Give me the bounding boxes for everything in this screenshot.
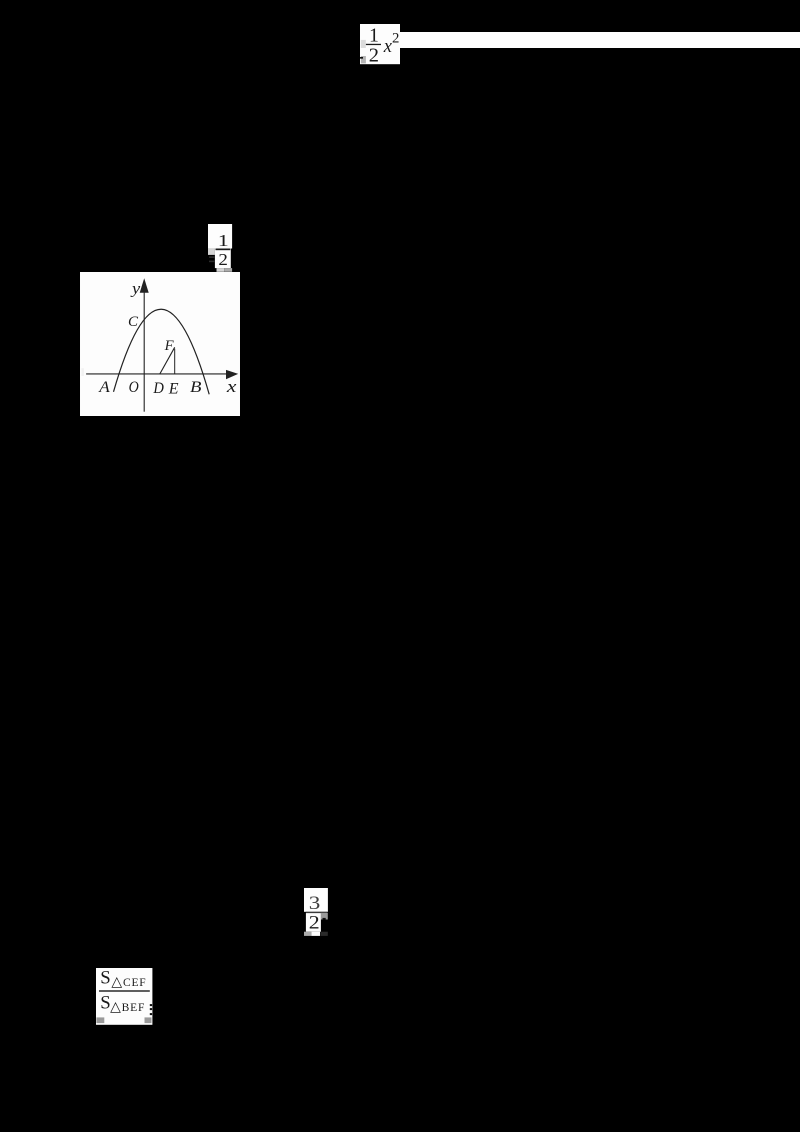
svg-text:2: 2 — [218, 250, 228, 269]
y axis line — [143, 286, 145, 412]
y axis arrowhead — [140, 278, 149, 292]
x axis arrowhead — [226, 370, 238, 379]
fraction bar — [215, 248, 230, 250]
gray artifact bottom right — [144, 1017, 151, 1023]
svg-text:O: O — [129, 379, 139, 396]
svg-text:1: 1 — [218, 231, 229, 250]
figure background — [80, 272, 240, 416]
medium gray artifact bottom — [224, 268, 232, 272]
svg-text:2: 2 — [309, 913, 320, 933]
white strip across top — [400, 32, 800, 48]
denominator background box — [306, 913, 321, 932]
text mark artifact right upper — [149, 1004, 151, 1006]
svg-text:2: 2 — [392, 30, 399, 46]
svg-text:C: C — [128, 314, 139, 330]
dark dash artifact lower — [209, 260, 215, 262]
parabola curve — [114, 309, 210, 394]
gray artifact left — [208, 248, 215, 255]
svg-text:1: 1 — [369, 24, 379, 46]
black tick artifact over gray — [322, 917, 325, 919]
svg-text:2: 2 — [369, 44, 379, 65]
text mark artifact right middle — [149, 1008, 151, 1010]
gray artifact left middle — [361, 40, 366, 48]
denominator background box — [215, 248, 231, 268]
numerator background box — [208, 224, 232, 249]
svg-text:3: 3 — [309, 892, 321, 913]
text mark artifact right lower — [149, 1013, 151, 1015]
formula image 1/2 — [208, 224, 233, 273]
black dash bottom left — [360, 57, 364, 59]
formula background box — [360, 24, 400, 64]
light gray artifact bottom — [216, 268, 224, 272]
svg-text:F: F — [164, 338, 175, 354]
svg-text:△BEF: △BEF — [110, 1000, 145, 1015]
gray artifact bottom left — [361, 56, 366, 63]
svg-text:S: S — [100, 993, 110, 1014]
svg-text:x: x — [226, 378, 237, 396]
gray artifact bottom left — [304, 931, 311, 935]
svg-text:B: B — [190, 378, 202, 395]
faint artifact at left end of x axis — [81, 368, 84, 376]
svg-text:S: S — [100, 968, 110, 989]
svg-text:E: E — [168, 380, 179, 397]
dark dash artifact upper — [209, 256, 215, 258]
fraction bar — [366, 44, 381, 45]
x axis line — [86, 373, 228, 375]
fraction bar — [99, 990, 150, 991]
formula image 3/2 — [304, 888, 328, 936]
formula image S_triangleCEF / S_triangleBEF — [96, 968, 153, 1025]
white artifact bottom — [311, 931, 320, 935]
formula background box — [96, 968, 152, 1025]
fraction bar — [306, 911, 328, 912]
segment F-D — [160, 347, 175, 374]
figure: parabola graph — [80, 272, 240, 416]
gray artifact right — [321, 912, 328, 919]
svg-text:y: y — [130, 279, 141, 297]
svg-text:D: D — [152, 380, 164, 397]
formula image (1/2)x^2 — [360, 24, 401, 65]
svg-text:△CEF: △CEF — [111, 975, 146, 990]
segment F-E — [174, 348, 176, 373]
gray artifact bottom left — [96, 1017, 104, 1023]
dark artifact bottom right — [321, 931, 328, 935]
numerator background box — [304, 888, 328, 912]
svg-text:A: A — [98, 378, 111, 396]
